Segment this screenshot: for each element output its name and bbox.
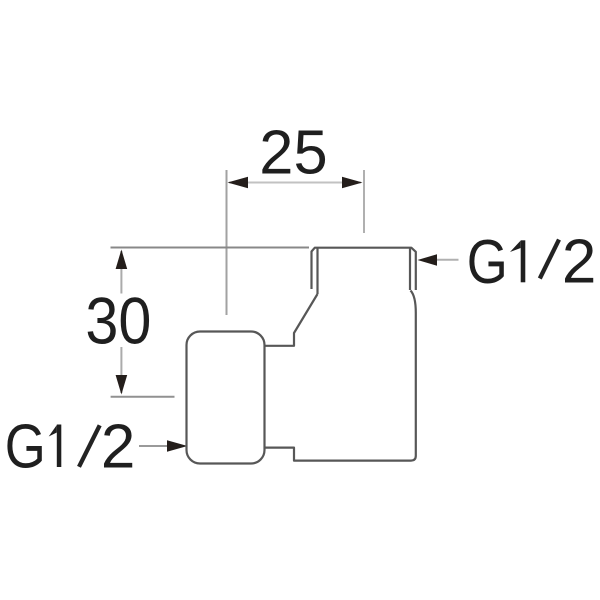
svg-text:2: 2 <box>562 228 596 297</box>
svg-text:30: 30 <box>85 284 151 358</box>
svg-text:G: G <box>467 228 508 297</box>
svg-text:25: 25 <box>259 118 327 188</box>
svg-text:G: G <box>5 412 46 481</box>
svg-text:2: 2 <box>101 412 135 481</box>
